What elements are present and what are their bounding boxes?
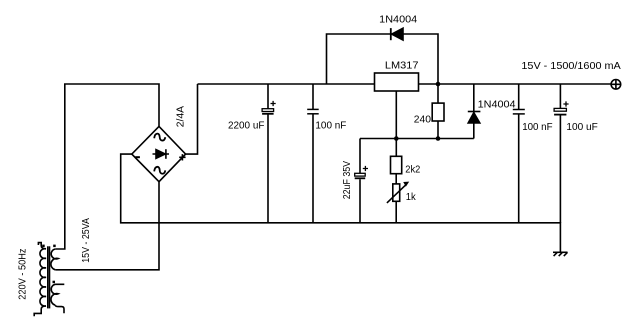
- svg-text:2200 uF: 2200 uF: [228, 120, 264, 132]
- junction dot adj-pot: [394, 136, 399, 141]
- junction dot output: [436, 82, 441, 87]
- junction dot adj-240: [436, 136, 441, 141]
- svg-text:220V - 50Hz: 220V - 50Hz: [17, 249, 28, 300]
- svg-text:100 uF: 100 uF: [566, 121, 597, 133]
- core: [47, 246, 49, 308]
- svg-text:15V - 1500/1600 mA: 15V - 1500/1600 mA: [521, 60, 620, 72]
- resistor 240: [432, 84, 444, 139]
- svg-text:22uF 35V: 22uF 35V: [342, 161, 353, 200]
- bridge rectifier B1: [132, 126, 186, 181]
- capacitor 100uF: [554, 84, 569, 223]
- regulator LM317: [375, 73, 419, 91]
- svg-text:100 nF: 100 nF: [522, 121, 552, 133]
- capacitor 100nF (left): [307, 84, 319, 223]
- primary bottom lead: [34, 306, 46, 316]
- wire ADJ horizontal: [360, 138, 474, 140]
- wire bridge + output to top rail: [186, 84, 198, 154]
- capacitor 100nF (right): [513, 84, 525, 223]
- primary winding (6 bumps, bulge left): [40, 249, 46, 306]
- svg-text:15V - 25VA: 15V - 25VA: [81, 218, 92, 263]
- wire AC net 2: bridge bottom vertex to transformer secondary bottom: [55, 182, 159, 270]
- diode 1N4004 bypass loop: [327, 28, 439, 84]
- wire top rail (V+ / output net): [198, 83, 612, 85]
- wire ground net: bridge minus, bottom rail, ground drop: [121, 154, 561, 252]
- diode 1N4004 (protection, vertical): [468, 84, 481, 139]
- secondary 2 bottom lead: [55, 305, 64, 313]
- svg-text:LM317: LM317: [385, 59, 419, 71]
- capacitor 22uF: [355, 139, 368, 223]
- secondary winding 1 (top, 2 bumps): [51, 249, 58, 270]
- ground: [553, 252, 568, 256]
- svg-text:1k: 1k: [406, 191, 417, 203]
- primary top lead: [38, 243, 46, 249]
- inner diode: [153, 153, 170, 155]
- svg-text:2k2: 2k2: [405, 164, 420, 176]
- tilde top: [154, 134, 165, 141]
- svg-text:1N4004: 1N4004: [478, 98, 516, 110]
- tilde bottom: [154, 167, 165, 174]
- resistor 2k2: [391, 156, 402, 173]
- svg-text:1N4004: 1N4004: [379, 13, 417, 25]
- svg-text:2/4A: 2/4A: [175, 106, 187, 127]
- potentiometer 1k: [387, 174, 409, 223]
- minus mark: [135, 156, 140, 158]
- capacitor 2200uF: [262, 84, 276, 223]
- plus mark: [179, 154, 185, 160]
- polarity dots: [42, 245, 45, 248]
- wire AC net 1: transformer secondary top to bridge top vertex: [55, 84, 159, 249]
- svg-text:100 nF: 100 nF: [315, 119, 346, 131]
- svg-text:240: 240: [414, 113, 431, 125]
- secondary winding 2 (bottom, 2 bumps): [51, 284, 64, 305]
- wire ADJ pin down: [395, 91, 397, 156]
- transformer TR1: [34, 243, 64, 317]
- output terminal: [611, 80, 621, 90]
